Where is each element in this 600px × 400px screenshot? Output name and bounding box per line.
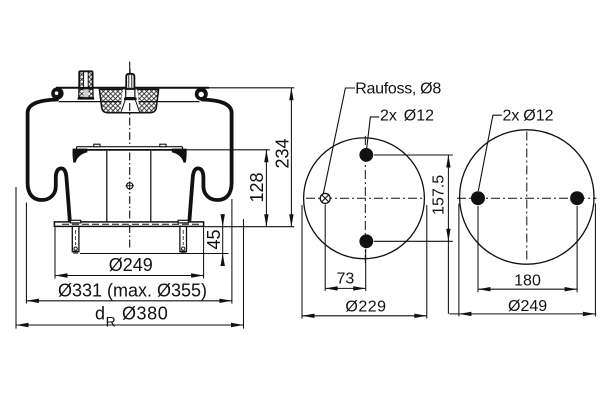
- svg-text:Ø12: Ø12: [404, 108, 434, 125]
- svg-text:Ø229: Ø229: [345, 298, 386, 315]
- svg-text:45: 45: [204, 229, 224, 249]
- svg-text:Ø331 (max. Ø355): Ø331 (max. Ø355): [58, 280, 207, 300]
- svg-text:73: 73: [337, 271, 355, 288]
- svg-text:157.5: 157.5: [431, 175, 448, 215]
- svg-text:Ø12: Ø12: [523, 108, 553, 125]
- svg-text:Ø249: Ø249: [109, 255, 153, 275]
- svg-text:2x: 2x: [503, 108, 520, 125]
- svg-text:234: 234: [272, 138, 292, 168]
- svg-text:128: 128: [247, 172, 267, 202]
- svg-text:Ø249: Ø249: [508, 298, 547, 315]
- svg-text:2x: 2x: [380, 108, 397, 125]
- svg-text:Raufoss, Ø8: Raufoss, Ø8: [355, 81, 441, 98]
- svg-text:180: 180: [514, 273, 541, 290]
